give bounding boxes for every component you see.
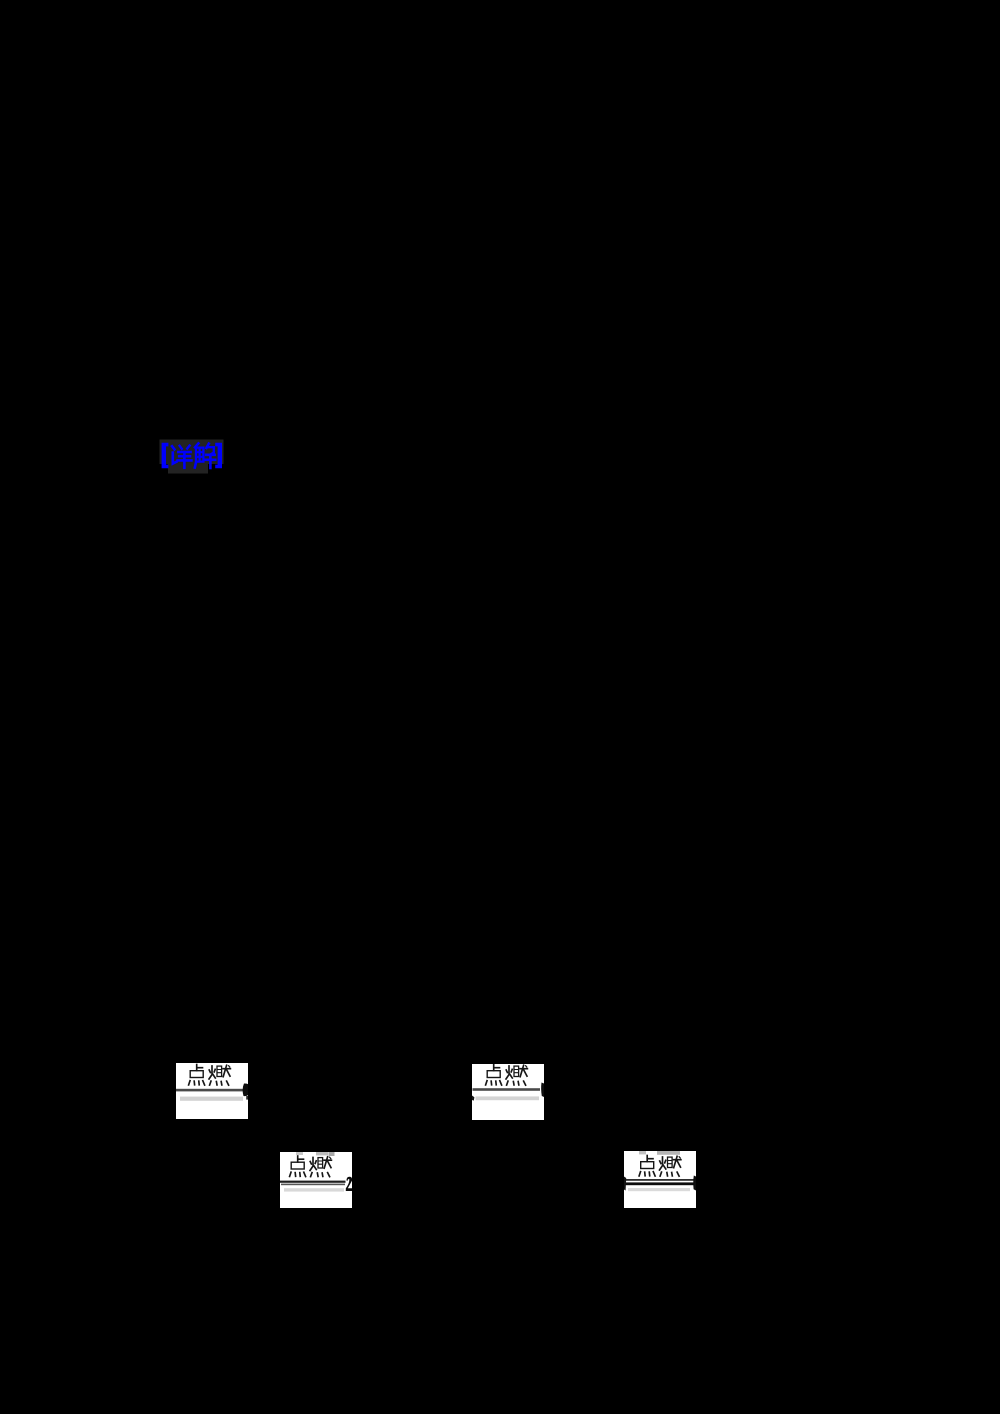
lower (faint) line of ══ [180, 1097, 243, 1101]
black glyph overlapping right edge [243, 1083, 251, 1096]
black marks clipped at right edge [693, 1176, 696, 1191]
digit 2 overlapping right edge [346, 1177, 352, 1191]
【 [162, 443, 169, 468]
equation condition image 1: 点燃 over double line (S + O2 equation) [176, 1063, 248, 1119]
equation condition image 2: 点燃 over double line (CO equation) [472, 1064, 544, 1120]
upper (dark) line of ══ [176, 1089, 245, 1092]
equation condition image 3: 点燃 over double line (H2 equation, coefficient 2 at right) [280, 1152, 352, 1208]
black marks at lower-left edge [472, 1096, 474, 1101]
详 [172, 446, 174, 449]
double dark line [626, 1179, 694, 1181]
faint grey smudges along top edge [296, 1152, 303, 1155]
black marks clipped at left edge [624, 1177, 626, 1191]
解 [195, 443, 198, 447]
blue heading 【详解】 [159, 438, 225, 474]
faint jpeg-halo behind heading [160, 440, 224, 474]
】 [215, 443, 222, 468]
shared glyph definitions: 点燃 (ignite) drawn as strokes [0, 0, 1, 1]
equation condition image 4: 点燃 over double line (P equation) [624, 1151, 696, 1208]
black marks clipped at right edge [541, 1083, 544, 1098]
